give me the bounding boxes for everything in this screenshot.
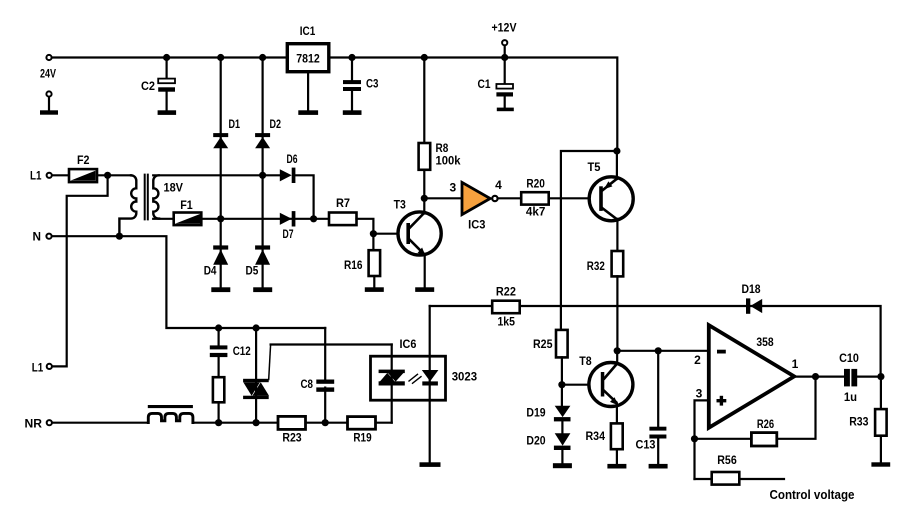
svg-text:D20: D20: [526, 434, 545, 448]
wire T3 collector: [423, 198, 425, 213]
svg-text:D18: D18: [741, 282, 760, 296]
wire T8 collector row to op-amp pin2: [617, 350, 707, 352]
svg-text:100k: 100k: [436, 154, 461, 168]
svg-text:NR: NR: [25, 417, 43, 431]
wire IC3 to R20: [498, 197, 522, 199]
resistor R19: [348, 417, 376, 445]
svg-text:T3: T3: [394, 198, 406, 212]
svg-text:T5: T5: [588, 160, 601, 174]
wire R8 column: [423, 58, 425, 199]
node T8-collector: [614, 347, 621, 354]
op-amp IC3 inverter: [462, 182, 498, 231]
node C12-bottom: [215, 419, 222, 426]
diode D6: [280, 152, 298, 183]
diode D20: [526, 433, 570, 450]
terminal +12V: [502, 40, 507, 45]
terminal 0V: [46, 91, 51, 96]
node C13-top: [655, 347, 662, 354]
wire C3 column: [351, 58, 353, 111]
node rail-R8: [421, 54, 428, 61]
wire IC6 light arrows: [409, 374, 421, 383]
terminal N: [46, 234, 51, 239]
svg-text:358: 358: [756, 335, 774, 349]
resistor R32: [587, 251, 623, 276]
svg-text:T8: T8: [579, 354, 592, 368]
node C8-bottom: [322, 419, 329, 426]
wire R34 to ground: [616, 449, 618, 464]
node rail-C3: [348, 54, 355, 61]
svg-text:D6: D6: [287, 152, 298, 166]
node triac-top: [253, 324, 260, 331]
diode D19: [526, 406, 570, 422]
transistor T3: [394, 198, 442, 256]
svg-text:R26: R26: [757, 417, 775, 431]
wire triac gate row: [271, 343, 392, 345]
transformer TR1 secondary: [153, 175, 159, 218]
fuse F1: [174, 198, 202, 225]
wire R20 to T5 base: [549, 197, 590, 199]
wire D6 output corner: [295, 175, 313, 219]
wire T8 base: [562, 384, 590, 386]
svg-text:IC6: IC6: [400, 337, 417, 351]
wire output to R26 row: [695, 377, 816, 439]
wire R56 row control voltage: [695, 478, 785, 480]
svg-text:+12V: +12V: [492, 21, 517, 35]
wire L1 jog down: [53, 175, 108, 366]
diode IC6 LED: [422, 370, 439, 386]
ground under D5: [253, 287, 272, 292]
diode D5: [246, 245, 271, 277]
transistor T8: [579, 354, 633, 407]
wire IC1 ground pin: [307, 72, 309, 111]
svg-text:C3: C3: [366, 77, 379, 91]
ground under C13: [649, 464, 668, 469]
capacitor C13: [636, 427, 667, 452]
resistor R22: [492, 285, 520, 329]
resistor R56: [712, 453, 740, 485]
svg-text:1: 1: [792, 357, 799, 371]
ground under IC1: [298, 110, 318, 115]
wire R16 column: [372, 234, 375, 288]
transformer TR1 core: [145, 175, 148, 220]
svg-text:R22: R22: [496, 285, 516, 299]
triac TRI1: [243, 345, 271, 400]
svg-text:7812: 7812: [296, 52, 320, 66]
wire D20 to ground: [561, 450, 563, 463]
wire bottom main row: [193, 422, 392, 424]
svg-text:C10: C10: [839, 351, 859, 365]
diode D4: [204, 245, 229, 277]
terminal 24V: [46, 55, 51, 60]
svg-text:D1: D1: [229, 117, 241, 131]
capacitor C8: [301, 377, 335, 392]
capacitor C1: [478, 77, 514, 97]
ground under 0V terminal: [40, 110, 58, 114]
resistor R20: [521, 177, 549, 219]
transistor T5: [588, 160, 634, 221]
ground under R16: [365, 287, 384, 292]
node rail-D1: [217, 54, 224, 61]
svg-text:IC3: IC3: [468, 218, 486, 232]
node pin3-R26: [691, 435, 698, 442]
node C10-R33: [877, 373, 884, 380]
svg-text:R25: R25: [533, 337, 553, 351]
wire T5 emitter: [616, 151, 618, 179]
wire T3 emitter to ground: [424, 255, 426, 288]
wire 0V terminal stem: [48, 97, 50, 111]
resistor R24 snubber: [213, 377, 224, 402]
svg-text:F1: F1: [180, 198, 193, 212]
node triac-bottom: [253, 419, 260, 426]
transformer TR1 primary: [119, 175, 136, 236]
wire triac column: [255, 328, 257, 423]
svg-text:18V: 18V: [164, 181, 184, 195]
node F2-primary: [104, 172, 111, 179]
wire R32 to T8 collector node: [616, 276, 618, 350]
svg-text:R19: R19: [353, 431, 371, 445]
node AC-D2: [259, 172, 266, 179]
svg-text:3023: 3023: [452, 370, 478, 384]
wire T8 emitter to R34: [616, 404, 618, 424]
terminal NR: [47, 420, 52, 425]
wire +12V stub and C1 column: [504, 46, 506, 108]
svg-text:R16: R16: [344, 258, 363, 272]
svg-text:R32: R32: [587, 259, 605, 273]
node T8-base: [558, 381, 565, 388]
node T3-base: [370, 230, 377, 237]
svg-text:D19: D19: [526, 406, 545, 420]
svg-text:N: N: [33, 230, 42, 244]
ground under C3: [343, 110, 362, 115]
svg-text:4k7: 4k7: [526, 205, 546, 219]
wire bridge column D2-D5: [262, 58, 264, 288]
node rail-12V: [501, 54, 508, 61]
svg-text:D5: D5: [246, 264, 259, 278]
op-amp-ic IC1 7812: [287, 24, 329, 72]
node rail-D2: [259, 54, 266, 61]
wire D19 to D20: [561, 421, 563, 433]
svg-text:R7: R7: [336, 196, 350, 210]
node AC-D1: [217, 215, 224, 222]
wire op-amp output: [794, 376, 844, 378]
wire C12 column: [218, 328, 220, 423]
svg-text:2: 2: [694, 353, 701, 367]
svg-text:L1: L1: [30, 169, 42, 183]
wire T3 collector to IC3: [424, 197, 462, 199]
svg-text:C2: C2: [141, 79, 155, 93]
svg-text:1u: 1u: [844, 390, 857, 404]
wire bridge column D1-D4: [220, 58, 222, 288]
capacitor C12: [210, 344, 251, 358]
wire T5 collector to R32: [616, 219, 618, 251]
wire F2 to transformer: [97, 174, 131, 176]
diode D2: [255, 117, 281, 148]
ground under R33: [871, 462, 890, 466]
node T5-emitter: [613, 147, 620, 154]
diode D7: [280, 211, 296, 241]
svg-text:Control voltage: Control voltage: [770, 487, 855, 502]
svg-text:C13: C13: [636, 438, 656, 452]
node C12-top: [215, 324, 222, 331]
wire secondary bottom F1 row: [153, 218, 329, 220]
diode D18: [741, 282, 762, 314]
svg-text:C8: C8: [301, 377, 314, 391]
svg-text:3: 3: [696, 387, 703, 401]
svg-text:D4: D4: [204, 264, 217, 278]
svg-text:4: 4: [495, 178, 502, 192]
inductor L2 choke: [148, 405, 193, 423]
wire R33 column: [880, 377, 882, 463]
svg-text:C1: C1: [478, 77, 491, 91]
svg-text:R20: R20: [526, 177, 545, 191]
svg-text:F2: F2: [77, 153, 90, 167]
wire R22 feedback row: [430, 306, 881, 377]
wire R25 to T8 base node: [561, 357, 563, 406]
wire L1 to F2: [52, 174, 69, 176]
node T3-collector: [421, 195, 428, 202]
capacitor C3: [343, 77, 379, 92]
wire emitter node to R25 branch: [561, 151, 617, 330]
node opamp-out: [812, 373, 819, 380]
wire N row: [52, 236, 325, 328]
resistor R23: [278, 416, 306, 444]
svg-text:1k5: 1k5: [497, 315, 515, 329]
svg-text:IC1: IC1: [300, 24, 316, 38]
resistor R25: [533, 330, 568, 358]
wire C2 column: [166, 58, 168, 111]
diode D1: [213, 117, 240, 148]
triac IC6 phototriac: [379, 370, 405, 386]
wire R19 to optocoupler: [391, 345, 393, 423]
ground under D20: [553, 463, 572, 468]
capacitor C2: [141, 79, 175, 93]
svg-text:D7: D7: [283, 227, 294, 241]
wire R7 to T3 base: [357, 219, 398, 234]
svg-text:R33: R33: [849, 415, 869, 429]
resistor R16: [344, 250, 380, 276]
wire C10 to output node: [857, 376, 880, 378]
resistor R26: [751, 417, 776, 446]
resistor R33: [849, 409, 886, 436]
terminal L1 top: [47, 173, 52, 178]
wire IC6 LED column: [429, 306, 431, 463]
node N-primary: [116, 233, 123, 240]
wire C13 column: [657, 351, 659, 464]
svg-text:R23: R23: [282, 431, 302, 445]
node D6-D7: [310, 215, 317, 222]
svg-text:R34: R34: [586, 429, 606, 443]
ground under T3 emitter: [415, 287, 434, 292]
op-amp U1 358: [709, 325, 794, 428]
ground under C2: [158, 110, 177, 115]
svg-text:D2: D2: [270, 117, 282, 131]
svg-text:24V: 24V: [40, 67, 56, 81]
wire C8 column: [324, 328, 326, 423]
resistor R8: [419, 141, 461, 170]
wire top +24V rail: [49, 58, 617, 152]
ground under R34: [607, 464, 626, 469]
wire op-amp pin3: [695, 400, 708, 479]
capacitor C10: [839, 351, 859, 404]
resistor R7: [329, 196, 357, 225]
wire T8 collector: [616, 351, 618, 364]
terminal L1 bottom: [47, 364, 52, 369]
svg-text:R56: R56: [717, 453, 737, 467]
ground under D4: [211, 287, 230, 292]
ground under IC6: [420, 462, 441, 467]
wire NR to inductor: [53, 422, 149, 424]
svg-text:3: 3: [449, 181, 456, 195]
op-amp-ic IC6 box: [371, 337, 478, 400]
ground under C1: [497, 108, 514, 112]
resistor R34: [586, 423, 623, 449]
svg-text:L1: L1: [32, 361, 44, 375]
fuse F2: [69, 153, 97, 182]
wire secondary top to D6: [153, 174, 280, 176]
svg-text:C12: C12: [233, 344, 251, 358]
node rail-C2: [163, 54, 170, 61]
